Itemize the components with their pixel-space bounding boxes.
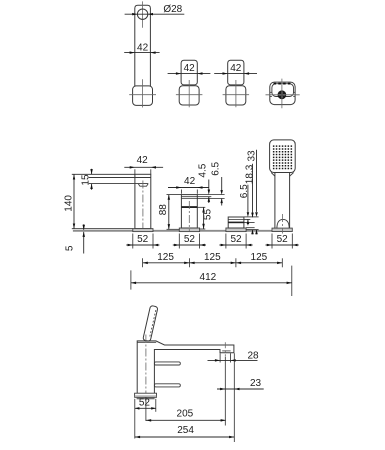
svg-text:52: 52	[277, 234, 289, 245]
svg-text:42: 42	[184, 176, 196, 187]
svg-text:52: 52	[137, 234, 149, 245]
dimension 140	[73, 174, 75, 228]
side: faucet body and spout arm outline	[137, 341, 234, 393]
side: cap inner line	[137, 341, 156, 343]
side: handle1 lever bar	[154, 362, 180, 365]
svg-text:42: 42	[137, 155, 149, 166]
top view: spout base crosshair	[142, 79, 144, 107]
front: handle2 extension lines	[244, 216, 259, 218]
dimension 15	[91, 169, 93, 175]
dimension 52 handle1 front	[178, 234, 180, 249]
front: countertop line	[73, 230, 292, 232]
svg-text:4.5: 4.5	[197, 163, 208, 177]
front: handle 1 body	[181, 195, 197, 228]
front: handle2 base plate	[226, 228, 246, 232]
top view: handle 1 plan rect	[181, 60, 197, 85]
top view: handle 1 base square	[179, 86, 199, 105]
top view: spout aerator circle	[137, 9, 147, 19]
front: spout centerline	[142, 181, 144, 232]
dimension 28	[208, 359, 258, 361]
dimension 88	[167, 194, 182, 196]
dimension 5 (counter thickness)	[83, 224, 85, 230]
svg-text:55: 55	[203, 209, 214, 221]
svg-text:125: 125	[157, 252, 174, 263]
svg-text:52: 52	[139, 397, 151, 408]
dimension 52 shower front	[271, 234, 273, 249]
top view: shower holder inner bracket	[272, 84, 294, 97]
dimension 205	[146, 419, 226, 421]
side: outlet inset line	[222, 350, 230, 352]
side: handle2 lever bar	[154, 384, 180, 387]
svg-text:6.5: 6.5	[210, 161, 221, 175]
dimension 6.5 handle1	[221, 177, 223, 192]
dimension 18.3	[252, 164, 254, 217]
dimension 42 (handle 2 plan)	[214, 73, 257, 75]
dimension 42 (handle 1 plan)	[168, 73, 211, 75]
front: shower centerline	[281, 214, 283, 234]
side: column centerline	[145, 335, 147, 398]
front: shower head	[270, 140, 296, 173]
svg-text:125: 125	[204, 252, 221, 263]
top view: spout vertical centerline	[142, 1, 144, 27]
front: lever extension lines right	[197, 194, 224, 196]
dimension 55	[197, 206, 205, 208]
side: base gasket	[137, 397, 155, 399]
svg-text:28: 28	[247, 351, 259, 362]
top view: shower holder dashed edge	[274, 83, 292, 85]
side: long extension line (outlet axis)	[224, 357, 226, 426]
dimension 23	[217, 388, 264, 390]
front: shower handle	[274, 173, 276, 229]
front: bottom extension line at 228.7	[72, 228, 133, 230]
svg-text:Ø28: Ø28	[163, 4, 182, 15]
side: long extension line (arm end)	[233, 353, 235, 442]
dimension row 125-125-125	[143, 262, 283, 264]
top view: spout plan body	[135, 5, 151, 86]
dimension 4.5	[208, 180, 210, 191]
front: handle 2 body	[228, 217, 244, 228]
front: 42 extension lines	[134, 169, 136, 174]
top view: shower holder crosshair	[281, 79, 283, 109]
svg-text:42: 42	[230, 63, 242, 74]
front: shower holder arch	[277, 219, 289, 228]
svg-text:18.3: 18.3	[244, 164, 255, 184]
front: spout aerator line + extension	[89, 183, 148, 185]
side: centerline lower extension	[145, 397, 147, 421]
svg-text:15: 15	[80, 174, 91, 186]
side: outlet centerline	[224, 342, 226, 357]
dimension 52 handle2 front	[225, 234, 227, 249]
dimension 42 (spout plan width)	[124, 52, 159, 54]
front: handle1 base plate	[179, 228, 199, 232]
side: base flange	[135, 393, 157, 397]
dimension Ø28 leader line	[125, 13, 185, 15]
dimension 52 side	[135, 407, 156, 409]
top view: handle 2 plan rect	[228, 60, 244, 85]
dimension 254	[135, 436, 234, 438]
front: handle 1 centerline	[188, 201, 190, 231]
svg-text:52: 52	[184, 234, 196, 245]
front: shower spray face dots	[273, 145, 292, 169]
svg-text:42: 42	[184, 63, 196, 74]
svg-text:125: 125	[251, 252, 268, 263]
top view: handle 2 base square	[226, 86, 246, 105]
top view: shower handle end black circle	[278, 90, 287, 99]
svg-text:205: 205	[177, 408, 194, 419]
top view: shower holder outer square	[270, 82, 295, 105]
top view: shower holder side tabs	[270, 91, 272, 93]
top view: handle 1 crosshair	[188, 80, 190, 107]
svg-text:52: 52	[230, 234, 242, 245]
front: spout cap line + 15 extension	[89, 177, 151, 179]
dimension 412	[130, 270, 132, 289]
front: spout column	[135, 174, 151, 228]
side: 52 extension + 254 left extension	[134, 399, 136, 439]
side: 28 extension lines	[219, 353, 221, 362]
front: top extension line (140/15)	[72, 173, 135, 175]
front: spout base plate	[133, 229, 153, 232]
dimension 33	[256, 150, 258, 212]
svg-text:140: 140	[64, 195, 75, 212]
front: shower base plate	[272, 228, 292, 231]
svg-text:88: 88	[158, 204, 169, 216]
svg-text:6.5: 6.5	[239, 184, 250, 198]
svg-text:42: 42	[137, 42, 149, 53]
svg-text:254: 254	[177, 425, 194, 436]
dimension 6.5 handle2	[247, 185, 249, 213]
dimension 52 spout front	[132, 234, 134, 249]
svg-text:5: 5	[65, 245, 76, 251]
top view: spout base square	[133, 86, 153, 106]
front: shower neck chamfers	[271, 173, 275, 177]
svg-text:33: 33	[246, 150, 257, 162]
front: spout aerator trapezoid	[138, 184, 148, 187]
side: lever handle (tilted)	[143, 305, 158, 341]
top view: handle 2 crosshair	[235, 80, 237, 107]
svg-text:412: 412	[200, 272, 217, 283]
svg-text:23: 23	[250, 378, 262, 389]
